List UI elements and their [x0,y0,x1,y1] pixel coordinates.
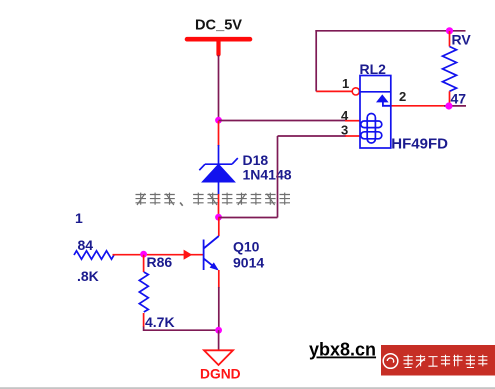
resistor RV body [443,47,457,92]
annotation: 续流管，靠近继电器摆放 (grey note) [136,193,291,206]
junction node: pin2 / RV bottom [445,102,452,109]
power symbol DC_5V bar [187,39,250,54]
wire: junction to relay pin 4 [219,120,347,122]
watermark badge (red) [381,345,495,376]
junction node: diode / coil return / collector [215,214,222,221]
svg-text:1N4148: 1N4148 [243,167,292,183]
relay pin 4 stub [345,120,360,122]
resistor RV bottom pin [449,91,451,105]
svg-text:ybx8.cn: ybx8.cn [309,340,376,360]
resistor RV top pin [449,31,451,47]
transistor Q10 emitter stub (red) [218,270,220,288]
svg-text:DGND: DGND [200,366,241,381]
wire: across to relay pin 3 [278,135,347,137]
svg-text:Q10: Q10 [233,239,260,255]
svg-text:2: 2 [399,89,406,104]
relay pin 2 wire (red) [391,105,445,107]
transistor Q10 [204,236,219,270]
svg-text:RL2: RL2 [360,61,387,77]
wire: down to DGND symbol [218,330,220,350]
ground DGND symbol [204,350,233,365]
wire: R86 bottom to emitter rail [144,327,219,331]
resistor R84 body (cropped) [74,251,114,259]
svg-text:9014: 9014 [233,255,264,271]
relay switch arrow [376,94,391,105]
svg-text:1: 1 [75,210,83,226]
wire: pin2 to stub end [444,105,466,107]
diode D18 bottom pin (red) [218,194,220,216]
relay coil [361,114,382,144]
badge text 电子工程师笔记 [404,355,488,368]
svg-text:4.7K: 4.7K [145,314,175,330]
svg-text:3: 3 [341,123,348,138]
signal-flow arrow on base wire [184,250,193,260]
wire: junction to coil-return corner [219,217,278,219]
bottom divider line [0,387,495,389]
svg-text:84: 84 [78,237,94,253]
svg-text:RV: RV [452,32,472,48]
wire: base drive (red) [113,254,204,256]
svg-text:4: 4 [341,108,349,123]
badge logo circle [383,354,398,369]
svg-text:1: 1 [342,76,349,91]
relay pin 1 no-connect circle [352,88,359,95]
relay RL2 body [360,76,391,149]
wire: pin1 vertical from top rail [315,30,317,91]
svg-text:DC_5V: DC_5V [195,17,242,33]
svg-text:47: 47 [451,91,467,107]
junction node: R84 / R86 / base [140,251,147,258]
junction node: emitter / R86 / ground [215,327,222,334]
svg-text:.8K: .8K [77,268,99,284]
wire: 5V rail down to junction [218,55,220,119]
wire: vertical up to pin3 row [277,136,279,218]
junction node: 5V / coil pin4 / diode [215,117,222,124]
diode D18 top pin (red) [218,121,220,146]
junction node: top rail / RV [446,27,453,34]
transistor Q10 collector stub (red) [218,218,220,237]
wire: emitter down to ground rail [218,287,220,329]
svg-text:R86: R86 [147,254,173,270]
diode D18 [199,145,238,195]
resistor R86 top pin [143,255,145,272]
resistor R86 body [139,272,148,312]
svg-text:HF49FD: HF49FD [391,135,448,152]
resistor R86 bottom pin [143,313,145,327]
relay pin 3 stub [345,135,360,137]
wire: pin1 horizontal (red) [316,90,352,92]
wire: top rail to RV [315,30,465,32]
transistor Q10 emitter arrowhead [210,262,219,270]
